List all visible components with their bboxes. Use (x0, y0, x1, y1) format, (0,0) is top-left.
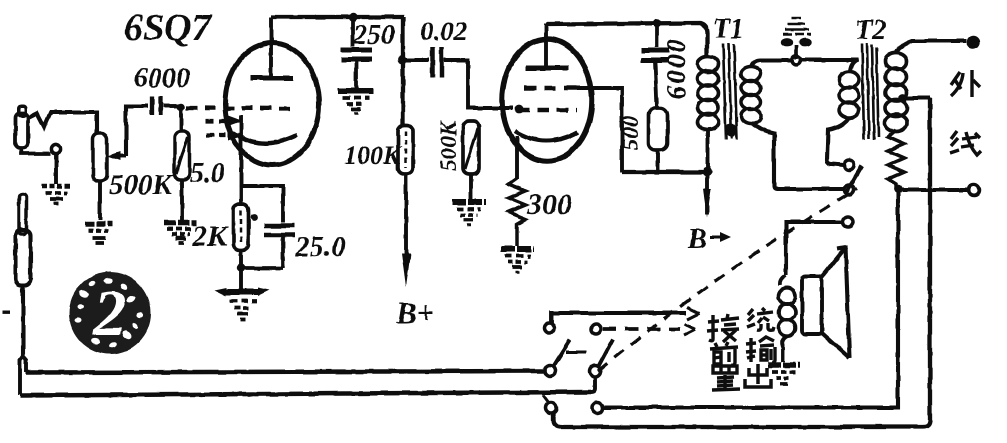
ground G6 (452, 202, 486, 225)
wire T1 secondary bottom to contact B (751, 123, 843, 189)
wire 500K to ground (469, 174, 473, 199)
svg-text:2K: 2K (191, 220, 229, 253)
wire node to 0.02 (403, 58, 429, 62)
label 前 (710, 342, 738, 365)
T1 secondary winding (741, 67, 761, 124)
T2 secondary winding (885, 53, 907, 132)
ground G4 (214, 288, 270, 321)
B+ feed arrow 1 (402, 174, 411, 287)
bottom rail 1 to C3 (26, 371, 543, 373)
wire J1 tip to pot top with V kink (28, 113, 97, 135)
node under zigzag (894, 185, 903, 194)
node top rail (349, 13, 357, 21)
label 外 (951, 70, 980, 97)
V2 cathode lead (515, 136, 519, 179)
ground G3 (164, 223, 197, 243)
switch lever B to A (846, 166, 862, 193)
tube V2 envelope (502, 39, 592, 161)
V1 plate (250, 17, 293, 78)
capacitor C6 6000 (641, 25, 669, 108)
svg-text:500K: 500K (109, 169, 174, 201)
grid node dot (177, 103, 185, 111)
node at 0.02 branch (398, 56, 407, 65)
resistor R3 2K (234, 204, 249, 250)
contact A (844, 160, 854, 170)
transformer T1 primary winding (698, 56, 719, 130)
contact D1 (546, 403, 557, 414)
speaker cone (822, 246, 850, 358)
link bar between levers (566, 351, 586, 354)
ink speck (251, 214, 258, 221)
ground G1 (42, 186, 71, 204)
wire cap to grid node (163, 104, 179, 108)
svg-text:T1: T1 (713, 14, 744, 45)
arrow to text 1 (687, 308, 699, 320)
svg-text:100K: 100K (344, 141, 402, 170)
speaker driver (802, 276, 822, 334)
T2 hum coil zigzag (888, 130, 904, 187)
T1 primary bottom lead (706, 130, 710, 171)
potentiometer R1 500K (93, 133, 126, 181)
output terminal bottom (969, 185, 980, 196)
contact C1 (544, 323, 554, 333)
V2 cathode arc (515, 131, 578, 141)
capacitor C2 25.0 (244, 226, 295, 268)
capacitor C1 6000 (152, 96, 161, 115)
transformer T2 primary winding (839, 72, 859, 118)
label 线 (950, 131, 981, 155)
svg-text:2: 2 (93, 277, 127, 350)
speaker coil to ground lead (782, 336, 787, 362)
speaker voice coil (779, 275, 796, 336)
tube V1 6SQ7 envelope (225, 43, 319, 165)
wire node to resistor 5.0 (179, 110, 183, 132)
contact C2 (591, 324, 601, 334)
wire T2 primary bottom to contact A (827, 118, 849, 165)
input terminal node (51, 144, 60, 153)
node B+ rail (702, 167, 711, 176)
cathode resistor R6 300 zigzag (509, 178, 526, 246)
T2 core (862, 43, 879, 140)
svg-text:250: 250 (352, 20, 395, 51)
node for snubber (653, 19, 661, 27)
resistor R7 500 (649, 108, 668, 150)
wire zigzag node to output terminal bottom (902, 188, 967, 192)
contact D2 (592, 403, 603, 414)
resistor R2 5.0 (175, 131, 190, 180)
V2 grid row 1 (524, 86, 576, 91)
T1 core (723, 43, 737, 140)
lever C4 (598, 339, 613, 367)
V2 grid row 2 (519, 108, 577, 113)
label 接 (707, 314, 739, 342)
wire 5.0 to ground (180, 180, 184, 221)
svg-text:25.0: 25.0 (294, 231, 346, 263)
ground G5 (338, 91, 373, 113)
wire T1 secondary top to T2 primary top (751, 60, 858, 72)
wire pot bottom to ground (98, 181, 102, 220)
label 统 (747, 308, 774, 330)
ground G7 (501, 249, 534, 272)
svg-text:300: 300 (526, 188, 572, 221)
svg-text:B+: B+ (395, 295, 434, 330)
label 输 (746, 337, 775, 362)
capacitor C5 0.02 (433, 47, 442, 77)
capacitor C4 250 (340, 19, 372, 89)
V1 cathode arc (237, 134, 297, 143)
V2 plate (526, 23, 569, 68)
lever C3 (553, 340, 570, 367)
dashed mechanical link (598, 189, 857, 371)
contact C3 (545, 366, 556, 377)
arrow to text 2 (684, 324, 695, 335)
wire terminal to ground (54, 154, 58, 184)
svg-text:B: B (687, 224, 707, 255)
wire 0.02 to grid of V2 (444, 60, 513, 108)
wire grid row1 to output rail (576, 88, 622, 172)
V1 diode plates with arrows (206, 116, 243, 141)
phone plug P2 (16, 194, 31, 285)
fork to rail 2 (20, 356, 23, 395)
svg-text:T2: T2 (855, 15, 886, 46)
svg-text:6SQ7: 6SQ7 (124, 7, 213, 49)
wire zigzag node down to D2 rail (604, 191, 898, 408)
contact B (844, 185, 854, 195)
stray speck left edge (3, 311, 10, 314)
wire 500 to rail (656, 150, 660, 172)
figure badge 2 (69, 272, 151, 354)
cathode network junction dot (237, 264, 245, 272)
V2 grid node dot (515, 105, 524, 114)
wire T2 secondary top to output terminal (896, 41, 966, 53)
svg-text:5.0: 5.0 (190, 158, 225, 189)
svg-text:500K: 500K (436, 119, 461, 171)
wire C1 to preamp pointer (551, 313, 686, 323)
top rail stage 2 (546, 23, 707, 56)
plug lead down (21, 285, 25, 358)
node at chassis ground (792, 56, 801, 65)
wire wiper up to coupling cap (126, 106, 148, 156)
fork to rail 1 (23, 356, 27, 372)
dashed pointer from C2 (603, 327, 680, 331)
chassis ground G8 (781, 18, 811, 59)
ground G9 (768, 365, 800, 384)
output terminal top (968, 37, 978, 47)
dashed grid wire into tube V1 (186, 106, 297, 111)
label 出 (745, 364, 771, 387)
wire C4 down to lower rail (591, 377, 595, 392)
svg-text:6000: 6000 (134, 63, 190, 94)
label 置 (712, 366, 740, 390)
svg-text:0.02: 0.02 (420, 16, 467, 46)
bottom rail 2 to C4 (20, 392, 591, 396)
B+ rail under T1 (622, 170, 709, 174)
wire J1 sleeve to input terminal (21, 148, 51, 154)
svg-text:500: 500 (618, 115, 643, 150)
top rail stage 1 (271, 15, 404, 19)
resistor R5 500K grid leak (463, 121, 479, 174)
resistor R4 100K (398, 125, 413, 174)
contact C4 (590, 366, 601, 377)
V1 cathode line (239, 115, 243, 187)
right side long drop and bottom return rail (553, 98, 930, 427)
wire rail down to 100K (401, 17, 405, 126)
wire cathode junction to 2K and 25.0 (241, 186, 283, 289)
T2 secondary tap node (899, 94, 908, 103)
B+ feed arrow 2 (703, 172, 711, 217)
wire contact C to speaker (786, 222, 843, 275)
ground G2 (85, 224, 112, 243)
contact C (843, 217, 853, 227)
svg-text:6000: 6000 (661, 37, 691, 99)
label B+ with arrow (687, 224, 731, 255)
input plug J1 (16, 106, 29, 148)
wire tap to right-side drop (903, 96, 930, 100)
